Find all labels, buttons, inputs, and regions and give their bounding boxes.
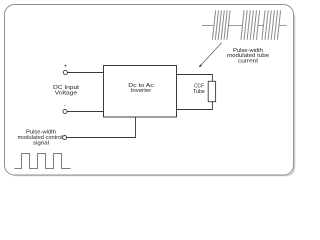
terminal T2 (DC input negative) — [63, 109, 67, 113]
terminal T1 (DC input positive) — [63, 70, 67, 74]
waveform burst 3 — [262, 10, 281, 40]
waveform: pulse-width modulated control signal (square wave) — [15, 154, 71, 169]
waveform burst 2 — [241, 10, 260, 40]
waveform: pulse-width modulated tube current (baseline) — [202, 25, 287, 27]
block U1 Dc to Ac Inverter — [104, 66, 177, 118]
label Pulse-width modulated control signal — [18, 129, 63, 146]
svg-text:Voltage: Voltage — [55, 91, 78, 97]
label DC Input Voltage — [53, 85, 80, 97]
svg-text:Tube: Tube — [193, 89, 205, 95]
wire T1 to inverter — [68, 72, 104, 74]
waveform burst 1 — [212, 10, 230, 40]
label Pulse-width modulated tube current — [227, 48, 269, 65]
frame border — [5, 5, 294, 176]
svg-text:signal: signal — [33, 141, 49, 147]
wire tube bottom back to inverter — [177, 102, 213, 110]
svg-text:Inverter: Inverter — [131, 88, 152, 94]
wire inverter output top to tube — [177, 75, 213, 82]
svg-text:current: current — [238, 59, 259, 65]
wire T2 to inverter — [67, 111, 103, 113]
label CCF Tube — [193, 84, 205, 96]
wire control signal to inverter bottom — [67, 117, 136, 138]
CCF tube V1 — [208, 81, 215, 101]
svg-text:+: + — [64, 63, 67, 69]
terminal T3 (control signal) — [63, 136, 67, 140]
frame shadow — [14, 15, 295, 176]
arrow from tube-current label to tube circuit — [199, 43, 222, 68]
